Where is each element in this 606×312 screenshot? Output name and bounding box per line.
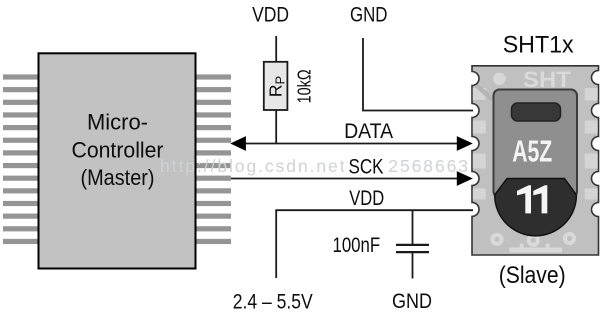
wire SCK	[231, 178, 459, 180]
wire VDD middle	[275, 209, 473, 211]
svg-text:10kΩ: 10kΩ	[294, 69, 315, 103]
wire GND horizontal to sensor	[362, 110, 473, 112]
arrow SCK right	[457, 171, 473, 186]
microcontroller U1 left pins	[3, 74, 39, 244]
microcontroller U1 label Micro-Controller (Master)	[72, 110, 164, 191]
microcontroller U1 body	[39, 53, 196, 268]
sensor U2 silkscreen circle	[493, 73, 505, 85]
svg-text:A5Z: A5Z	[512, 135, 552, 169]
svg-text:(Master): (Master)	[81, 165, 155, 190]
sensor U2 bottom vias	[492, 234, 574, 245]
svg-text:Micro-: Micro-	[87, 110, 148, 135]
sensor U2 edge pads	[473, 88, 598, 200]
net label SCK	[344, 155, 389, 179]
wire supply drop	[275, 210, 277, 278]
sensor U2 trace	[477, 86, 493, 100]
sensor U2 bottom marks	[510, 248, 563, 253]
svg-text:SHT1x: SHT1x	[503, 32, 574, 59]
microcontroller U1 right pins	[196, 74, 232, 244]
svg-text:(Slave): (Slave)	[499, 262, 566, 289]
svg-text:GND: GND	[350, 3, 388, 26]
wire VDD to resistor	[275, 36, 277, 62]
svg-text:SHT: SHT	[523, 67, 571, 92]
sensor U2 opening	[512, 103, 561, 121]
arrow DATA right	[457, 136, 473, 151]
resistor RP body	[264, 62, 288, 110]
svg-text:SCK: SCK	[349, 155, 385, 179]
svg-text:DATA: DATA	[344, 119, 394, 143]
sensor U2 PCB outline with castellations	[472, 66, 599, 255]
svg-text:VDD: VDD	[252, 3, 289, 26]
svg-text:GND: GND	[392, 289, 432, 312]
sensor U2 cap dome	[495, 179, 577, 236]
wire capacitor top lead	[412, 210, 414, 244]
svg-text:100nF: 100nF	[333, 233, 381, 257]
svg-text:Controller: Controller	[72, 137, 164, 162]
capacitor C1 plates	[396, 244, 429, 246]
wire capacitor bottom lead	[412, 253, 414, 279]
wire DATA	[243, 143, 459, 145]
svg-text:VDD: VDD	[349, 186, 384, 210]
wire GND vertical	[362, 38, 364, 111]
sensor U2 epoxy body	[494, 90, 578, 198]
svg-text:2.4 – 5.5V: 2.4 – 5.5V	[233, 289, 314, 312]
arrow DATA left	[230, 136, 246, 151]
sensor U2 marking 11	[517, 185, 547, 213]
wire resistor to DATA	[275, 110, 277, 144]
